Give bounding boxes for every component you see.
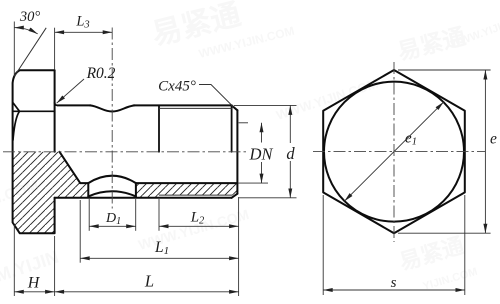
svg-text:DN: DN xyxy=(249,145,274,164)
drill cone xyxy=(60,152,81,183)
svg-text:H: H xyxy=(27,275,41,292)
bore wall right xyxy=(136,182,238,184)
dimension S xyxy=(323,195,465,295)
thread root lines xyxy=(159,108,233,195)
bore far-side arc xyxy=(88,176,136,183)
hex centerline horizontal xyxy=(313,151,485,153)
centerline bolt axis xyxy=(3,151,248,153)
under-head fillet R0.2 xyxy=(55,103,58,106)
head facet line xyxy=(13,110,54,112)
centerline cross hole xyxy=(111,28,113,209)
hex centerline vertical xyxy=(393,62,395,242)
svg-text:L: L xyxy=(144,272,154,291)
svg-text:Cx45°: Cx45° xyxy=(158,79,196,95)
dimension H xyxy=(14,225,54,296)
dimension DN xyxy=(239,123,268,183)
svg-text:d: d xyxy=(286,144,295,163)
dimension d xyxy=(234,105,297,197)
hexagon outline xyxy=(323,70,465,233)
30 deg chamfer construction line xyxy=(14,28,46,77)
hex head outline xyxy=(13,70,55,233)
dimension e xyxy=(398,70,491,233)
dimension L1 xyxy=(80,200,238,263)
svg-text:s: s xyxy=(391,275,397,291)
groove top curve xyxy=(90,105,134,111)
svg-text:e: e xyxy=(490,131,497,148)
hatching head and wall section xyxy=(13,152,89,233)
dimension L3 xyxy=(55,28,113,70)
dimension L2 xyxy=(159,199,239,231)
shank top edge xyxy=(58,104,91,106)
cross hole right wall xyxy=(135,183,137,196)
bore wall left xyxy=(80,182,88,184)
chamfer circle xyxy=(324,82,464,222)
svg-text:30°: 30° xyxy=(19,9,41,25)
hatching threaded wall strip xyxy=(136,183,238,198)
shank/thread top edge xyxy=(134,104,232,106)
end face xyxy=(236,110,238,193)
head facet corner strokes xyxy=(13,103,20,140)
groove far-side arc xyxy=(88,191,136,196)
svg-text:R0.2: R0.2 xyxy=(86,65,116,82)
chamfer edge line xyxy=(231,105,233,151)
thread start line xyxy=(158,105,160,151)
cross hole left wall xyxy=(87,183,89,196)
dimension e1 diagonal xyxy=(344,102,443,201)
end chamfer bottom xyxy=(232,194,238,198)
bottom outer edge xyxy=(55,197,232,199)
leader Cx45 xyxy=(199,85,234,108)
dimension D1 xyxy=(89,199,136,231)
end chamfer top xyxy=(232,105,238,110)
dimension 30deg xyxy=(14,22,37,76)
leader R0.2 xyxy=(57,79,84,103)
head face line xyxy=(54,70,56,152)
dimension L xyxy=(55,197,239,296)
